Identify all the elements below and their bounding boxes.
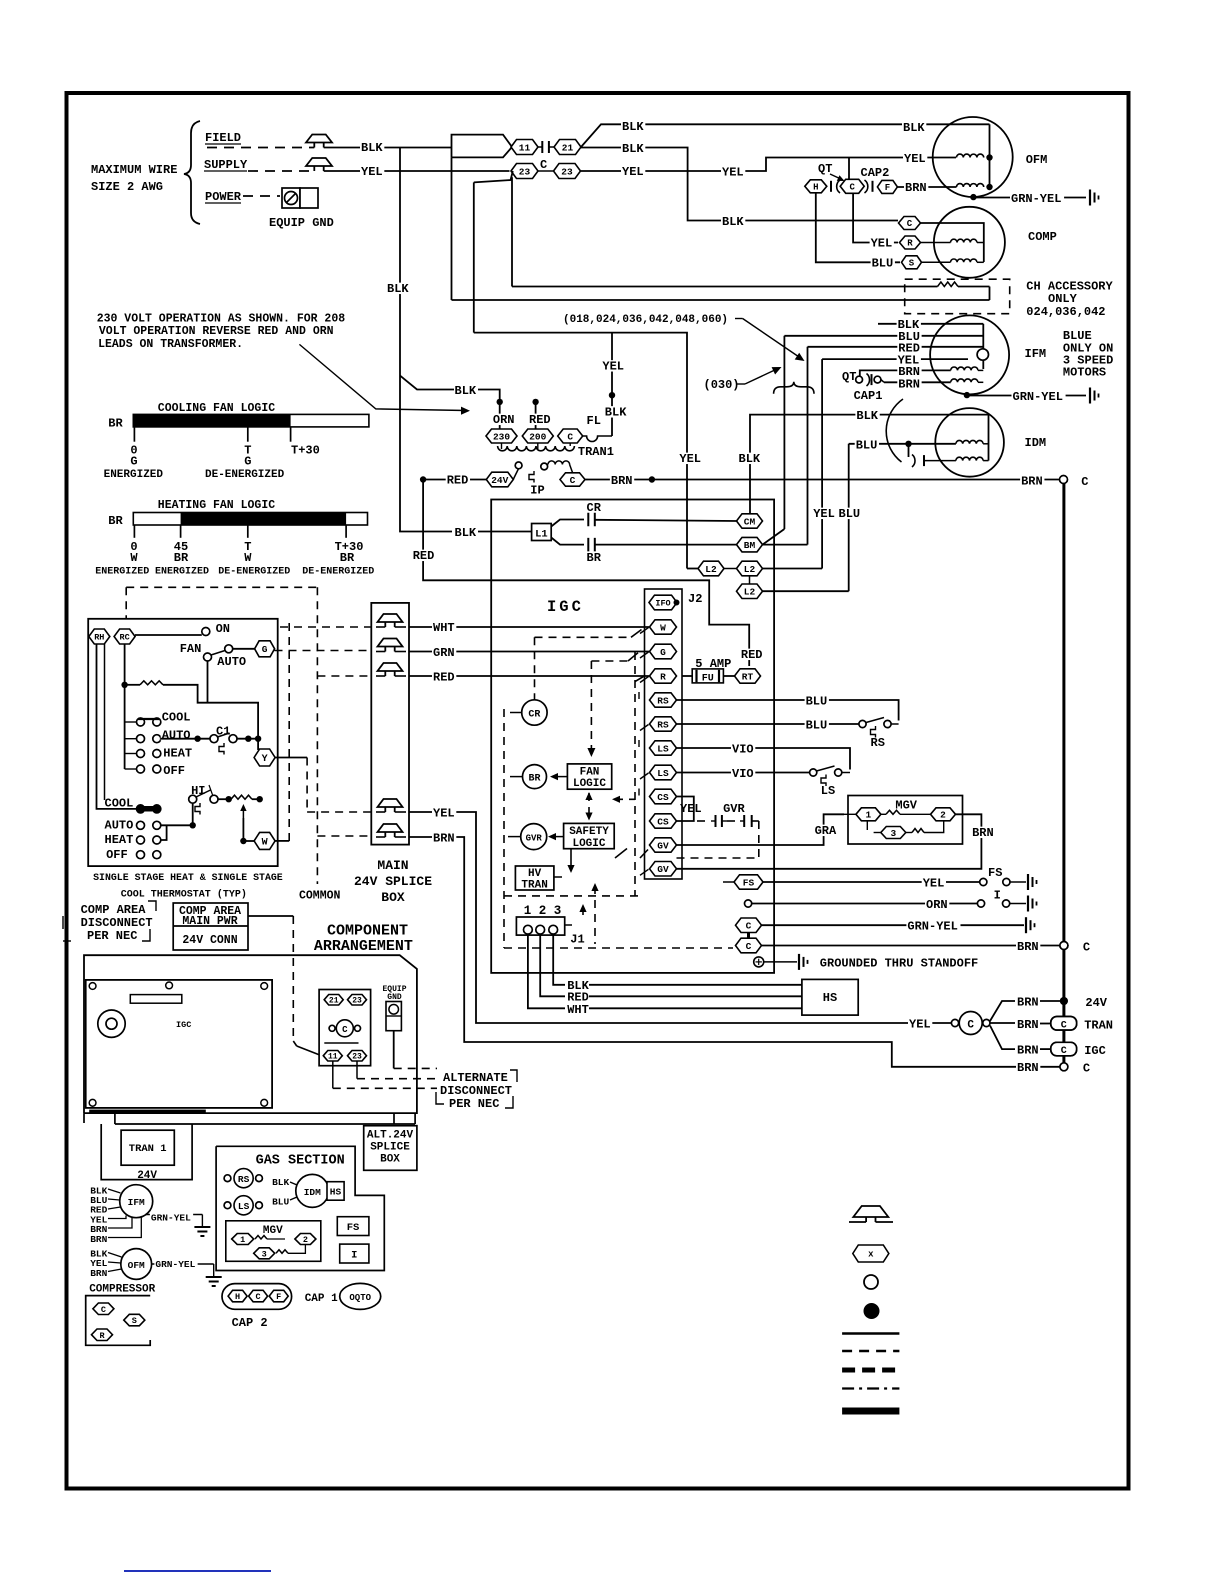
svg-text:C: C	[570, 475, 576, 486]
connector pin 23 b	[554, 164, 581, 179]
wire nut splice	[378, 663, 403, 671]
legend line dash dot	[842, 1387, 899, 1389]
wire YEL CS jumper	[677, 797, 694, 822]
terminal RT	[735, 669, 761, 683]
wire ORN limit	[745, 900, 752, 907]
pin stub marks	[640, 628, 649, 634]
svg-text:BRN: BRN	[1017, 1018, 1039, 1032]
svg-text:R: R	[99, 1331, 105, 1341]
svg-text:POWER: POWER	[205, 190, 242, 204]
svg-text:RH: RH	[94, 633, 104, 643]
wire ORN	[499, 402, 501, 429]
svg-text:S: S	[909, 259, 915, 269]
box ALT 24V SPLICE BOX	[364, 1126, 417, 1171]
svg-text:BLU: BLU	[806, 719, 828, 733]
svg-text:BLK: BLK	[605, 406, 627, 420]
svg-text:G: G	[262, 644, 268, 655]
terminal R COMP	[900, 236, 921, 249]
svg-text:FS: FS	[988, 866, 1002, 880]
svg-text:GRN-YEL: GRN-YEL	[151, 1213, 191, 1224]
plug block	[319, 990, 371, 1066]
svg-text:1: 1	[866, 810, 872, 821]
svg-text:IGC: IGC	[1084, 1044, 1106, 1058]
terminal L2 a	[698, 561, 724, 576]
wire CH line upper	[512, 286, 938, 288]
svg-text:MGV: MGV	[895, 799, 917, 813]
svg-text:MAIN: MAIN	[377, 858, 408, 873]
wire RED lead vertical	[807, 347, 809, 545]
wire W to trunk	[275, 840, 289, 842]
svg-text:BOX: BOX	[380, 1154, 400, 1166]
svg-text:YEL: YEL	[361, 165, 383, 179]
svg-text:YEL: YEL	[722, 166, 744, 180]
hole board large	[98, 1010, 125, 1037]
svg-text:PER NEC: PER NEC	[87, 929, 137, 943]
dashed wire GRN	[275, 650, 372, 652]
svg-text:W: W	[130, 551, 138, 565]
dashed vertical fan logic	[590, 661, 592, 750]
wire BLU CAP2-H to COMP S	[816, 193, 900, 262]
svg-text:COOL THERMOSTAT (TYP): COOL THERMOSTAT (TYP)	[121, 889, 247, 901]
svg-text:BR: BR	[174, 551, 189, 565]
svg-text:R: R	[660, 671, 666, 682]
valve terminal 3	[881, 827, 906, 839]
wire 23 bottom drop to CH line	[511, 177, 513, 286]
wire supply 23 drop	[474, 171, 513, 182]
wire GRN	[409, 651, 649, 653]
capacitor CAP2 bars H side	[830, 181, 832, 192]
wire RED transformer	[535, 402, 537, 429]
svg-text:TRAN: TRAN	[521, 880, 547, 892]
fuse FU	[682, 675, 692, 677]
svg-text:MAXIMUM WIRE: MAXIMUM WIRE	[91, 163, 177, 177]
svg-text:C: C	[342, 1025, 348, 1035]
selector blade cool lower	[137, 806, 160, 812]
svg-text:1 2 3: 1 2 3	[524, 904, 562, 918]
relay CR	[510, 712, 522, 714]
wire BLU lead vertical	[783, 336, 785, 529]
pin GV a	[650, 838, 677, 852]
svg-text:DE-ENERGIZED: DE-ENERGIZED	[302, 567, 374, 578]
svg-text:BRN: BRN	[1017, 940, 1039, 954]
pin IFO	[649, 595, 677, 610]
svg-text:G: G	[130, 455, 137, 469]
svg-text:RED: RED	[529, 413, 551, 427]
resistor CH accessory heater	[938, 282, 959, 287]
svg-text:BRN: BRN	[1021, 475, 1043, 489]
dashed drop to plug	[292, 916, 294, 1041]
wire selector bus	[124, 685, 126, 769]
terminal L2 c	[737, 584, 763, 599]
wire YEL tap to CAP2 C terminal	[848, 158, 850, 180]
svg-text:W: W	[262, 838, 268, 849]
svg-text:COOL: COOL	[162, 711, 191, 725]
svg-text:BRN: BRN	[1017, 1061, 1039, 1075]
wire option line 018	[474, 332, 612, 334]
wire BRN IFM 2	[884, 381, 951, 383]
module HS gas	[327, 1182, 344, 1201]
plug pin 23 lower	[348, 1051, 367, 1062]
terminal C TRAN overlay	[1051, 1017, 1077, 1031]
wire YEL supply vertical	[612, 333, 687, 569]
box compressor	[86, 1296, 151, 1346]
svg-text:CAP1: CAP1	[854, 389, 883, 403]
connector pin 23 a	[511, 164, 538, 179]
terminal Y	[254, 749, 275, 766]
brace	[184, 121, 200, 224]
svg-text:BRN: BRN	[90, 1268, 107, 1279]
wire BLU RS a	[677, 700, 899, 721]
motor OFM layout	[121, 1249, 152, 1280]
dashed vertical right	[634, 652, 636, 896]
svg-text:BLK: BLK	[622, 120, 644, 134]
node IFM speed tap	[977, 349, 988, 360]
svg-text:COMMON: COMMON	[299, 890, 341, 903]
svg-text:CM: CM	[744, 516, 756, 527]
svg-text:GRN-YEL: GRN-YEL	[907, 920, 957, 934]
pin RS a	[650, 693, 677, 707]
ground I	[1027, 896, 1029, 912]
svg-text:C: C	[101, 1305, 106, 1315]
svg-text:BM: BM	[744, 540, 756, 551]
node BRN junction	[649, 476, 655, 482]
svg-text:COOLING FAN LOGIC: COOLING FAN LOGIC	[158, 402, 275, 415]
svg-text:CR: CR	[528, 710, 540, 721]
wire BRN to IGC	[990, 1026, 1015, 1050]
svg-text:IFM: IFM	[128, 1197, 145, 1208]
ground OFM chassis	[1089, 190, 1091, 206]
terminal S COMP	[902, 256, 922, 269]
svg-text:I: I	[994, 889, 1001, 903]
svg-text:L2: L2	[705, 564, 717, 575]
svg-text:CAP 1: CAP 1	[305, 1293, 338, 1305]
wire GRA GV to MGV	[677, 814, 845, 845]
controller box IGC	[491, 500, 774, 973]
svg-text:3: 3	[262, 1249, 267, 1259]
legend terminal unmarked	[864, 1275, 878, 1289]
svg-text:FU: FU	[702, 674, 714, 685]
svg-text:GVR: GVR	[723, 802, 745, 816]
svg-text:IDM: IDM	[1025, 436, 1047, 450]
svg-text:BR: BR	[587, 551, 602, 565]
svg-text:024,036,042: 024,036,042	[1026, 305, 1105, 319]
svg-text:1: 1	[240, 1235, 245, 1245]
wire RC down	[124, 644, 126, 685]
terminal C mid	[1060, 942, 1068, 950]
svg-text:J2: J2	[688, 592, 702, 606]
dashed trunk common	[316, 587, 318, 884]
dashed trunk W-WHT	[288, 623, 290, 841]
wire WHT	[409, 626, 649, 628]
svg-text:ALTERNATE: ALTERNATE	[443, 1071, 508, 1085]
svg-text:BLK: BLK	[455, 384, 477, 398]
node IFM frame	[964, 392, 970, 398]
wire dashed power	[243, 195, 280, 197]
svg-text:BRN: BRN	[1017, 1044, 1039, 1058]
motor OFM	[933, 117, 1013, 197]
switch FAN AUTO	[204, 653, 212, 661]
wire auto to C1	[161, 738, 210, 740]
svg-text:TRAN1: TRAN1	[578, 445, 614, 459]
dashed box CH accessory only	[905, 279, 1010, 314]
svg-text:24V: 24V	[1085, 996, 1107, 1010]
arrow 030 to BLU lead	[736, 383, 745, 385]
thermal switch QT CAP1	[841, 371, 858, 382]
label YEL supply wire	[360, 166, 384, 177]
box FS gas	[337, 1217, 369, 1236]
wire IDM internal vertical	[988, 415, 990, 461]
valve terminal 2	[931, 808, 956, 821]
svg-text:FAN: FAN	[580, 767, 600, 779]
wire VIO LS a	[677, 748, 851, 770]
svg-text:F: F	[276, 1292, 281, 1302]
equip gnd block component	[386, 1002, 401, 1031]
plug divider	[324, 1042, 358, 1044]
border frame	[67, 93, 1129, 1489]
wire funnel drop to CH line	[451, 157, 453, 300]
svg-text:ALT.24V: ALT.24V	[367, 1130, 414, 1142]
wire dashed supply	[248, 170, 314, 172]
svg-text:23: 23	[352, 997, 362, 1006]
winding COMP start	[951, 259, 977, 262]
svg-text:BLK: BLK	[739, 452, 761, 466]
svg-text:RS: RS	[657, 695, 669, 706]
svg-text:FAN: FAN	[180, 642, 202, 656]
svg-text:J1: J1	[570, 933, 584, 947]
valve terminal 1 gas	[232, 1234, 254, 1245]
motor IFM	[930, 315, 1009, 394]
svg-text:G: G	[660, 647, 666, 658]
svg-text:2: 2	[303, 1235, 308, 1245]
wire nut splice	[378, 614, 403, 622]
arrow 018 to RED lead	[735, 318, 743, 320]
svg-text:YEL: YEL	[871, 237, 893, 251]
svg-text:23: 23	[352, 1053, 362, 1062]
svg-text:24V: 24V	[491, 475, 508, 486]
svg-text:EQUIP GND: EQUIP GND	[269, 216, 334, 230]
ground IFM layout	[194, 1226, 210, 1228]
node OFM frame	[970, 194, 976, 200]
wire YEL supply	[324, 170, 510, 172]
svg-text:H: H	[813, 183, 818, 193]
svg-text:ON: ON	[216, 622, 230, 636]
svg-text:YEL: YEL	[904, 152, 926, 166]
wire dashed field	[207, 147, 314, 149]
svg-text:CAP 2: CAP 2	[232, 1316, 268, 1330]
arrow fan logic to BR	[553, 776, 567, 778]
svg-text:ONLY: ONLY	[1048, 292, 1078, 306]
valve box MGV	[848, 796, 963, 845]
logic block SAFETY LOGIC	[564, 823, 615, 848]
svg-text:MAIN PWR: MAIN PWR	[182, 915, 237, 928]
screw holes board	[89, 983, 96, 990]
thermostat box	[88, 619, 278, 866]
node RED splice	[532, 399, 538, 405]
svg-text:ENERGIZED: ENERGIZED	[95, 567, 149, 578]
svg-text:YEL: YEL	[433, 807, 455, 821]
wire BRN MGV to GV	[677, 814, 982, 869]
wire to G	[233, 648, 255, 650]
svg-text:IGC: IGC	[547, 598, 584, 616]
connector J1	[516, 917, 564, 935]
svg-text:H: H	[235, 1292, 240, 1302]
capacitor IDM start	[908, 444, 910, 457]
wire BLU RS b	[677, 723, 859, 725]
svg-text:2: 2	[940, 810, 946, 821]
svg-text:HEATING FAN LOGIC: HEATING FAN LOGIC	[158, 499, 275, 512]
plug pin 11	[323, 1051, 342, 1062]
winding IFM 1	[951, 367, 978, 370]
svg-text:24V CONN: 24V CONN	[182, 934, 237, 947]
svg-text:HS: HS	[823, 991, 837, 1005]
svg-text:200: 200	[529, 431, 546, 442]
svg-text:LS: LS	[657, 768, 669, 779]
wire BLU idm lead vertical	[848, 444, 850, 591]
wire RH down	[97, 644, 137, 809]
label BLK field wire	[360, 142, 384, 153]
terminal 24V	[486, 472, 513, 487]
wire YEL splice to common C	[409, 812, 952, 1023]
svg-text:C: C	[746, 921, 752, 932]
svg-text:HS: HS	[330, 1187, 342, 1198]
dashed wire BRN	[317, 835, 371, 837]
pin LS b	[650, 765, 677, 780]
node IDM blu junction	[905, 441, 911, 447]
svg-text:C: C	[1083, 941, 1090, 955]
wire nut splice	[378, 824, 403, 832]
wires OFM layout	[108, 1253, 122, 1258]
logic block FAN LOGIC	[567, 764, 611, 789]
dashed alt disconnect c	[333, 1087, 437, 1089]
switch HI	[190, 785, 207, 796]
svg-text:DISCONNECT: DISCONNECT	[440, 1084, 512, 1098]
ground OFM layout	[206, 1276, 222, 1278]
svg-text:BR: BR	[340, 551, 355, 565]
wire nut splice	[378, 639, 403, 647]
pin W	[650, 620, 677, 634]
svg-text:IGC: IGC	[176, 1020, 191, 1030]
selector upper contacts	[125, 721, 137, 723]
box TRAN1 outer	[101, 1124, 192, 1180]
svg-text:SAFETY: SAFETY	[569, 826, 609, 838]
svg-text:BLK: BLK	[722, 215, 744, 229]
svg-text:GND: GND	[387, 993, 402, 1002]
contact GVR capacitors	[697, 820, 711, 822]
valve terminal 3 gas	[254, 1248, 275, 1259]
resistor mgv 3	[906, 832, 912, 834]
svg-text:LEADS ON TRANSFORMER.: LEADS ON TRANSFORMER.	[98, 338, 243, 351]
wire YEL lead vertical	[821, 359, 823, 568]
wire BRN common top	[588, 479, 1060, 481]
wire L2 to YEL vertical	[763, 568, 823, 570]
svg-text:BLK: BLK	[387, 282, 409, 296]
wire lower selector links	[161, 824, 193, 826]
dashed trunk Y-YEL	[306, 758, 308, 813]
housing arc IDM	[886, 399, 903, 462]
svg-text:YEL: YEL	[923, 877, 945, 891]
svg-text:C: C	[907, 219, 913, 229]
legend splice	[864, 1303, 880, 1319]
svg-text:GRN-YEL: GRN-YEL	[155, 1259, 195, 1270]
terminal FS	[723, 881, 734, 883]
switch LS	[810, 769, 817, 776]
board IGC	[86, 980, 272, 1108]
svg-text:VOLT OPERATION REVERSE RED AND: VOLT OPERATION REVERSE RED AND ORN	[99, 325, 334, 338]
selector blade cool	[138, 718, 159, 720]
dashed wire YEL	[307, 811, 371, 813]
svg-text:BR: BR	[528, 774, 540, 785]
resistor mgv gas 1	[255, 1236, 267, 1240]
svg-text:(018,024,036,042,048,060): (018,024,036,042,048,060)	[563, 314, 728, 326]
svg-text:23: 23	[561, 166, 573, 177]
svg-text:BRN: BRN	[433, 832, 455, 846]
svg-text:GRN-YEL: GRN-YEL	[1011, 192, 1061, 206]
terminal C bottom	[1060, 1063, 1068, 1071]
wire nut supply	[306, 158, 332, 166]
wire BM to BLU lead	[763, 529, 785, 545]
dashed alt disconnect b	[357, 1078, 437, 1080]
wire CH line lower	[452, 299, 990, 301]
terminal S compressor	[124, 1314, 145, 1326]
wiper arrow heat	[242, 806, 244, 818]
svg-text:GRN-YEL: GRN-YEL	[1013, 390, 1063, 404]
selector lower contacts	[137, 805, 145, 813]
svg-text:LS: LS	[238, 1201, 250, 1212]
wire resistor to C1	[163, 685, 258, 736]
svg-text:L1: L1	[535, 529, 548, 541]
svg-text:BOX: BOX	[381, 890, 405, 905]
svg-text:BLK: BLK	[272, 1177, 289, 1188]
wire BLK vertical main	[400, 148, 452, 532]
svg-text:ORN: ORN	[493, 413, 515, 427]
winding COMP run	[951, 239, 977, 242]
winding IDM 2	[956, 457, 983, 460]
terminal C IGC	[1051, 1042, 1077, 1056]
svg-text:GV: GV	[657, 864, 669, 875]
svg-text:TRAN: TRAN	[1084, 1019, 1113, 1033]
sensor RS gas	[224, 1175, 231, 1182]
wire BR to BM	[595, 544, 738, 546]
wire GRN-YEL IFM ground	[970, 395, 1086, 397]
svg-text:YEL: YEL	[679, 452, 701, 466]
capacitor CAP2 bars F side	[872, 181, 874, 192]
svg-text:YEL: YEL	[622, 165, 644, 179]
svg-text:CAP2: CAP2	[861, 166, 890, 180]
pin RS b	[650, 717, 677, 731]
connector pin 21	[554, 140, 581, 155]
terminal 230	[486, 429, 517, 443]
motor IDM gas	[296, 1174, 329, 1207]
winding IFM 2	[951, 379, 978, 382]
wire OFM internal vertical	[989, 124, 991, 187]
capacitor CAP2 terminal F	[877, 180, 897, 193]
label (018,024,036,042,048,060)	[562, 313, 735, 323]
terminal G	[255, 641, 275, 657]
svg-text:BLK: BLK	[856, 409, 878, 423]
svg-text:L2: L2	[744, 564, 756, 575]
node C1 junction	[194, 736, 200, 742]
svg-text:23: 23	[519, 166, 531, 177]
dashed inner box bottom	[504, 895, 639, 897]
svg-text:230: 230	[493, 431, 510, 442]
dashed wire G field	[591, 660, 628, 662]
wire VIO LS b	[677, 772, 810, 774]
svg-text:C: C	[967, 1019, 974, 1031]
svg-text:GROUNDED THRU STANDOFF: GROUNDED THRU STANDOFF	[820, 957, 978, 971]
wire YEL CAP2-C to COMP R	[853, 193, 898, 242]
wire BLK IFM	[878, 323, 983, 325]
wire nut splice	[378, 799, 403, 807]
